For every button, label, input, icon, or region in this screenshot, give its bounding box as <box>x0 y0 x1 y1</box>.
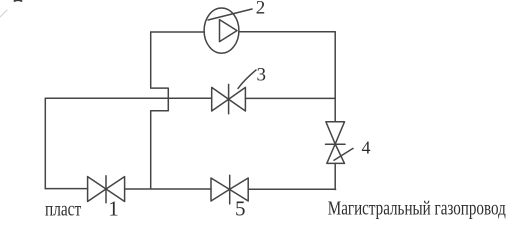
svg-text:3: 3 <box>257 65 267 86</box>
svg-text:4: 4 <box>362 138 371 158</box>
svg-text:Магистральный газопровод: Магистральный газопровод <box>328 199 506 220</box>
svg-text:1: 1 <box>108 197 119 221</box>
svg-text:пласт: пласт <box>45 199 81 221</box>
svg-text:2: 2 <box>256 0 265 19</box>
svg-text:5: 5 <box>235 197 246 221</box>
